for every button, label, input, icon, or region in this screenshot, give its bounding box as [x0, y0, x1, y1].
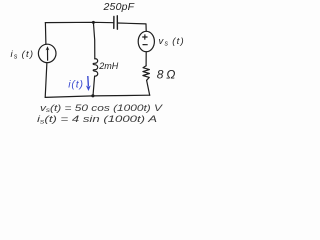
svg-text:vs(t) = 50 cos (1000t) V: vs(t) = 50 cos (1000t) V	[40, 103, 164, 114]
wire top-left segment (left corner to capacitor)	[45, 21, 113, 23]
svg-text:2mH: 2mH	[98, 61, 119, 71]
wire left branch upper (top wire down to current source)	[44, 23, 47, 45]
current label i(t) blue	[68, 76, 91, 91]
wire bottom (left corner to right corner)	[45, 95, 150, 97]
wire middle branch upper (top junction down to inductor)	[93, 22, 94, 58]
wire middle branch lower (inductor to bottom junction)	[93, 76, 95, 96]
current arrow i(t) blue down arrow	[87, 76, 90, 87]
svg-text:i(t): i(t)	[68, 78, 83, 90]
current source i_s (circle with up arrow)	[38, 44, 56, 62]
svg-text:8 Ω: 8 Ω	[157, 68, 176, 82]
svg-text:vs (t): vs (t)	[159, 36, 185, 48]
node junction dot top (middle branch tap)	[92, 21, 95, 24]
resistor 8ohm (zigzag)	[143, 66, 150, 81]
wire capacitor to voltage source corner	[118, 23, 147, 31]
svg-text:250pF: 250pF	[103, 1, 135, 13]
wire voltage source to resistor	[145, 52, 147, 66]
voltage source v_s (circle with plus minus)	[138, 31, 154, 51]
inductor 2mH (three-loop coil)	[93, 59, 98, 76]
wire resistor to bottom right corner	[147, 80, 150, 95]
svg-text:is(t) = 4 sin (1000t) A: is(t) = 4 sin (1000t) A	[37, 114, 157, 125]
wire left branch lower (current source to bottom corner)	[45, 63, 47, 98]
capacitor 250pF plates	[114, 16, 118, 29]
node junction dot bottom (middle branch tap)	[91, 94, 94, 97]
equation line 1: vs(t) = 50 cos(1000t) V	[37, 103, 164, 126]
